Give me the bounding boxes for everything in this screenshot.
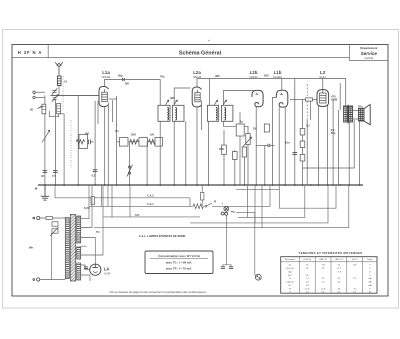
wire L2a cathode down [196, 107, 198, 185]
variable capacitor CV1b [52, 95, 57, 101]
consumption note box [145, 251, 213, 274]
svg-text:S.P.: S.P. [135, 213, 140, 217]
capacitor filter [84, 266, 88, 268]
wire [117, 141, 161, 143]
wire step 3 [94, 185, 349, 228]
svg-text:20K: 20K [131, 133, 136, 137]
wire L3 cathode wires down [318, 106, 320, 185]
svg-text:1n: 1n [240, 120, 243, 124]
volume potentiometer [246, 134, 250, 145]
wire [107, 185, 109, 206]
fuse P2 on heater feed [91, 197, 94, 205]
resistor box [300, 129, 305, 136]
svg-text:0,1: 0,1 [306, 124, 310, 128]
svg-text:TC: TC [96, 230, 100, 234]
resistor zigzag [149, 139, 156, 144]
wire [201, 185, 203, 206]
capacitor [89, 140, 94, 145]
wire step 0 [236, 185, 279, 189]
fuse [46, 217, 53, 220]
svg-text:avec TP : I = 70 mA.: avec TP : I = 70 mA. [166, 266, 192, 270]
svg-text:UL 41: UL 41 [352, 259, 359, 261]
svg-text:TENSIONS ET INTENSITÉS MOYE: TENSIONS ET INTENSITÉS MOYENNES [299, 250, 363, 255]
pickup jack PU [255, 274, 261, 280]
svg-text:L1a: L1a [102, 70, 110, 75]
wire L1b anode to rail [281, 79, 283, 91]
svg-text:45: 45 [41, 174, 44, 178]
svg-text:50p: 50p [331, 131, 336, 135]
wire [94, 101, 96, 185]
wire [223, 130, 225, 145]
resistor box [139, 138, 148, 147]
svg-text:UCH42: UCH42 [102, 75, 111, 79]
wire heater line [89, 205, 193, 207]
wire [97, 101, 99, 124]
wire tap [81, 185, 103, 255]
schematic outer frame [12, 45, 388, 297]
svg-text:Central: Central [365, 56, 374, 60]
wire [201, 101, 203, 131]
tube L3 [317, 90, 329, 107]
svg-text:Ig2(+4): Ig2(+4) [287, 282, 294, 284]
switch on heater line [205, 205, 207, 207]
junction dots on bus [44, 184, 360, 186]
antenna input terminal [33, 91, 35, 93]
svg-text:50K: 50K [219, 147, 224, 151]
coupling capacitor [267, 144, 269, 147]
ground bus [38, 184, 363, 186]
mains terminal bottom [33, 278, 40, 281]
capacitor 50p on anode line [122, 78, 124, 81]
resistor box [155, 138, 163, 147]
speaker [359, 105, 371, 125]
wire tap bottom [81, 275, 90, 281]
svg-text:485: 485 [215, 74, 220, 78]
stepped return wires bottom right [94, 185, 349, 228]
gang dotted line 2 [70, 120, 72, 168]
dial lamp 2 [221, 211, 235, 215]
svg-text:C.A.1: C.A.1 [147, 202, 154, 206]
svg-text:UCH 42: UCH 42 [303, 259, 312, 261]
power transformer TP [65, 215, 80, 282]
svg-text:7,5: 7,5 [52, 174, 56, 178]
wire [112, 100, 114, 122]
wire [51, 233, 53, 280]
wire [256, 145, 268, 147]
svg-text:Département: Département [360, 46, 377, 50]
capacitor Co [43, 170, 48, 172]
wire tap HT [81, 238, 96, 265]
svg-text:avec TC : I = 84 mA.: avec TC : I = 84 mA. [166, 261, 193, 265]
capacitor Cd [221, 266, 225, 268]
wire [54, 100, 56, 186]
svg-text:10n: 10n [285, 141, 290, 145]
antenna [55, 62, 63, 74]
wire [77, 95, 79, 185]
svg-text:R: R [214, 200, 216, 204]
wire detector out to volume pot [223, 121, 248, 129]
wire [146, 142, 148, 185]
IF transformer 2 [207, 100, 233, 121]
junction node [57, 94, 59, 96]
fuse box on heater feed 2 [201, 193, 204, 201]
band switch P2 [128, 166, 130, 168]
coupling box with resistor [79, 135, 88, 149]
svg-text:485: 485 [170, 96, 175, 100]
wire [173, 121, 175, 185]
wire anode side stub [109, 98, 117, 100]
capacitor on cathode wire [93, 169, 98, 171]
wire aux line [129, 185, 131, 217]
svg-text:Consommation sous 117 V-0 Hz: Consommation sous 117 V-0 Hz [158, 254, 201, 258]
wire anode rail 250V [197, 79, 346, 88]
wire [269, 185, 271, 206]
svg-text:Schéma Général: Schéma Général [179, 50, 222, 56]
wire [306, 120, 308, 185]
antenna coil [57, 76, 61, 86]
wire [129, 142, 131, 185]
oscillator coil box [57, 103, 61, 113]
capacitor box [264, 124, 269, 132]
rectifier tube L4 [90, 264, 101, 275]
wire screen divider [294, 79, 296, 186]
svg-text:L2b: L2b [250, 70, 258, 75]
svg-text:Service: Service [361, 51, 378, 56]
wire mains bottom [40, 279, 66, 281]
svg-text:UY42: UY42 [104, 272, 111, 276]
wire [49, 111, 58, 117]
wire [247, 129, 249, 134]
svg-text:H 3F N A: H 3F N A [18, 50, 43, 55]
wire [223, 265, 231, 267]
resistor box [236, 124, 244, 136]
wire [185, 121, 187, 185]
svg-text:L1b: L1b [274, 70, 282, 75]
trimmer arrow [38, 106, 43, 108]
wire L1b down [278, 107, 280, 185]
wire [239, 112, 241, 124]
wire L1a anode to IFT1 [105, 80, 161, 106]
wire [207, 121, 209, 185]
wire [337, 110, 339, 185]
earth terminal [33, 96, 35, 98]
wire main grid rail [51, 94, 100, 96]
svg-text:70a: 70a [160, 75, 165, 79]
wire [107, 103, 109, 186]
table body [286, 265, 372, 294]
resistor box [300, 155, 305, 162]
wire step 1 [238, 185, 305, 217]
svg-text:D1a: D1a [358, 105, 363, 109]
wire [332, 99, 334, 185]
wire tap [81, 185, 92, 228]
resistor box [300, 141, 305, 148]
wire grid [273, 98, 277, 186]
capacitor Ca [53, 170, 58, 172]
svg-text:UBC 41: UBC 41 [335, 259, 343, 261]
svg-text:6,3V: 6,3V [84, 206, 90, 210]
wire [223, 155, 225, 186]
wire speaker links [352, 110, 358, 112]
resistor zigzag heater dropper [193, 204, 203, 209]
svg-text:C.A.2: C.A.2 [147, 194, 154, 198]
svg-text:L4: L4 [104, 267, 110, 272]
wire [116, 96, 118, 185]
wire antenna to grid rail [58, 74, 60, 76]
wave band switch arrow [42, 130, 50, 142]
speck above frame [208, 40, 209, 41]
resistor box [233, 152, 238, 160]
resistor box below pot [242, 147, 246, 157]
dial lamp 1 [224, 206, 229, 211]
resistor zigzag [130, 139, 139, 144]
svg-text:Electrodes: Electrodes [285, 258, 296, 261]
wire [63, 114, 65, 185]
gang coupling dotted line [62, 76, 64, 110]
wire [243, 146, 245, 148]
mains terminal top [33, 216, 40, 219]
voltage selector [52, 222, 58, 226]
tube L2b [252, 90, 263, 106]
wire left column [44, 95, 46, 185]
svg-text:50: 50 [30, 108, 33, 112]
wire [159, 121, 161, 185]
svg-text:L2a: L2a [193, 70, 201, 75]
wire L2b down [255, 107, 257, 185]
wire [359, 121, 361, 185]
wire [111, 185, 113, 217]
wire [310, 101, 312, 120]
svg-text:Vg T: Vg T [288, 275, 293, 277]
wire IFT2 primary to rail [209, 79, 211, 106]
svg-text:UAF 42: UAF 42 [319, 258, 327, 261]
wire [101, 185, 103, 206]
wire [327, 106, 329, 186]
capacitor Cp [229, 266, 233, 268]
svg-text:L3: L3 [320, 70, 326, 75]
component value labels scattered [34, 74, 363, 235]
table header row [285, 258, 373, 261]
wire IFT2 sec to L2b diode [223, 91, 256, 106]
header separator line [12, 57, 350, 59]
resistor box [120, 138, 129, 147]
svg-text:50p: 50p [118, 74, 123, 78]
wire tap rectifier [81, 265, 90, 270]
wire CA2 return [54, 185, 56, 198]
wire tap [81, 245, 87, 247]
wire [239, 136, 241, 185]
svg-text:Wn: Wn [29, 246, 34, 250]
wire [234, 150, 236, 185]
svg-text:0,5: 0,5 [92, 174, 96, 178]
resistor box detector load [222, 145, 227, 155]
wire [348, 122, 350, 185]
wire IFT1 sec to L2a grid [174, 88, 190, 105]
wire [264, 146, 266, 186]
grid stopper resistor to L3 [290, 99, 306, 101]
wire cathode [284, 107, 286, 185]
tube L2a [192, 87, 201, 107]
svg-text:0,1: 0,1 [115, 129, 119, 133]
wire mains [40, 217, 66, 219]
wire [303, 120, 355, 168]
padder box [42, 104, 46, 114]
wire tap 6.3V [81, 185, 89, 219]
variable capacitor CV1a [52, 88, 57, 94]
svg-text:1/2W: 1/2W [331, 98, 338, 102]
tube L1a [99, 86, 109, 106]
output transformer [344, 105, 353, 124]
wire L3 anode to rail [322, 79, 324, 90]
svg-text:Voir au dessous de page la not: Voir au dessous de page la note concerna… [109, 290, 207, 294]
wire [302, 100, 304, 186]
wire step 4 [279, 185, 336, 208]
svg-text:250: 250 [264, 74, 269, 78]
IF transformer 1 [158, 100, 184, 121]
wire lamps to pickup [226, 215, 228, 264]
svg-text:Vg 2(+4): Vg 2(+4) [286, 268, 294, 270]
wire L1a cathode down [104, 107, 106, 185]
table frame [281, 257, 377, 294]
svg-text:Unité: Unité [367, 258, 373, 261]
ground symbol [41, 185, 49, 200]
RC row mid band [117, 138, 163, 186]
wire [339, 83, 341, 110]
header right box [349, 45, 351, 61]
wire OT primary feed [345, 79, 347, 107]
capacitor on screen line [293, 152, 298, 154]
tube L1b [276, 90, 287, 107]
wire step 2 [190, 185, 328, 223]
header left box divider [47, 45, 49, 58]
wire dashed [306, 84, 308, 120]
